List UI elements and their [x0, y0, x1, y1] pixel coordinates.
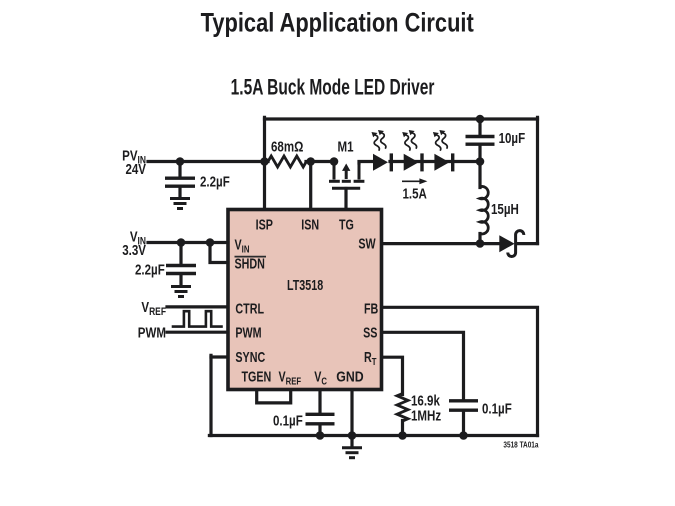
wire FB loop: [383, 307, 538, 435]
wire SS cap to bus: [462, 412, 465, 436]
svg-text:1.5A: 1.5A: [403, 185, 428, 202]
junction VIN-C3: [177, 238, 186, 247]
LED D1 emission arrows: [372, 130, 386, 151]
svg-text:ISP: ISP: [256, 216, 274, 233]
junction ISN node: [306, 157, 315, 166]
svg-text:ISN: ISN: [301, 216, 319, 233]
svg-text:10µF: 10µF: [499, 130, 526, 147]
wire TG stub: [344, 189, 347, 210]
capacitor C1 2.2uF plates: [165, 178, 195, 186]
wire SHDN link: [210, 243, 227, 263]
ground below C3: [171, 287, 191, 297]
wire top bus from ISP node to right rail: [265, 117, 538, 120]
svg-text:GND: GND: [336, 368, 364, 384]
op-amp U1 LT3518 IC body: [228, 210, 382, 390]
junction LED cathode node: [476, 157, 485, 166]
capacitor C4 0.1uF (SS) plates: [449, 401, 478, 410]
junction SW-inductor: [476, 239, 485, 248]
wire SW to schottky anode: [383, 242, 500, 245]
wire PVIN input to resistor: [148, 160, 268, 163]
PWM square wave symbol: [172, 311, 223, 326]
LED D1: [373, 153, 393, 171]
wire inductor top stub: [478, 162, 481, 188]
wire ISN stub: [309, 162, 312, 210]
wire resistor to M1 source node: [306, 160, 334, 163]
LED D3 emission arrows: [433, 130, 447, 151]
wire 10uF top stub: [478, 119, 481, 135]
wire RT resistor to bus: [401, 421, 404, 436]
svg-text:FB: FB: [364, 300, 378, 317]
junction top bus C2: [476, 115, 485, 124]
wire bottom bus: [209, 434, 537, 437]
junction ISP node: [260, 157, 269, 166]
wire C3 stub down from VIN: [179, 243, 182, 265]
wire VC stub: [318, 391, 321, 413]
svg-text:68mΩ: 68mΩ: [271, 138, 304, 155]
junction VC cap bus: [316, 431, 325, 440]
ground at GND pin: [342, 448, 362, 458]
svg-text:SHDN: SHDN: [235, 255, 265, 272]
svg-text:SYNC: SYNC: [235, 348, 265, 365]
svg-text:1MHz: 1MHz: [411, 407, 441, 424]
svg-text:VREF: VREF: [141, 298, 166, 318]
svg-text:CTRL: CTRL: [235, 300, 264, 317]
wire left rail down: [209, 355, 212, 435]
wire C1 stub down from PVIN: [178, 162, 181, 177]
junction GND bus: [348, 431, 357, 440]
svg-text:LT3518: LT3518: [287, 276, 323, 293]
diode D4 schottky bar: [508, 231, 524, 257]
wire CTRL input: [167, 305, 227, 308]
svg-text:3518 TA01a: 3518 TA01a: [503, 440, 539, 450]
svg-text:2.2µF: 2.2µF: [135, 261, 165, 278]
wire ISP stub: [263, 117, 266, 209]
svg-text:Typical Application Circuit: Typical Application Circuit: [201, 9, 474, 39]
wire PWM input: [167, 331, 227, 334]
junction SS cap bus: [459, 431, 468, 440]
wire RT to resistor: [383, 357, 403, 394]
junction VIN-SHDN: [206, 238, 215, 247]
svg-text:0.1µF: 0.1µF: [273, 412, 303, 429]
wire VIN input: [148, 241, 227, 244]
wire right rail top (output return): [536, 117, 539, 243]
wire C1 to ground: [178, 188, 181, 198]
svg-text:SW: SW: [358, 235, 376, 252]
wire M1 drain to LED anode: [359, 162, 374, 164]
svg-text:2.2µF: 2.2µF: [200, 173, 230, 190]
transistor M1 PMOS: [329, 162, 364, 189]
capacitor C5 0.1uF (VC) plates: [306, 414, 335, 424]
ground below C1: [170, 199, 190, 209]
wire SS to cap: [383, 332, 464, 399]
LED D2 emission arrows: [402, 130, 416, 151]
svg-text:SS: SS: [363, 324, 377, 341]
LED D2: [404, 153, 424, 171]
pin SHDN overline: [235, 256, 267, 258]
svg-text:0.1µF: 0.1µF: [482, 400, 512, 417]
resistor R1 68mOhm: [268, 156, 306, 167]
svg-text:3.3V: 3.3V: [122, 242, 146, 259]
current arrow 1.5A: [402, 178, 427, 184]
wire SYNC to left rail: [211, 355, 227, 358]
resistor R2 16.9k: [397, 394, 408, 422]
wire inductor bottom stub: [478, 234, 481, 244]
junction M1 source: [330, 157, 339, 166]
svg-text:TG: TG: [339, 216, 354, 233]
svg-text:15µH: 15µH: [491, 201, 519, 218]
diode D4 schottky triangle: [499, 235, 514, 252]
capacitor C2 10uF plates: [466, 137, 495, 145]
svg-text:24V: 24V: [125, 161, 146, 178]
wire C3 to ground: [179, 275, 182, 285]
svg-text:PWM: PWM: [235, 324, 261, 341]
inductor L1 15uH: [480, 186, 488, 233]
svg-text:TGEN: TGEN: [242, 368, 272, 385]
svg-text:M1: M1: [338, 138, 355, 155]
wire schottky cathode to right rail: [517, 242, 538, 245]
junction RT resistor bus: [398, 431, 407, 440]
transistor M1 body arrow head: [342, 164, 350, 171]
wire TGEN-VREF loop: [257, 391, 291, 403]
capacitor C3 2.2uF plates: [166, 266, 196, 274]
svg-text:1.5A Buck Mode LED Driver: 1.5A Buck Mode LED Driver: [231, 76, 435, 100]
wire GND stub: [350, 391, 353, 446]
wire 10uF bottom stub: [478, 146, 481, 162]
junction PVIN-C1: [176, 157, 185, 166]
svg-text:PWM: PWM: [138, 324, 166, 341]
wire VC cap to bus: [318, 425, 321, 435]
wire LED chain to cathode node: [390, 160, 480, 163]
LED D3: [434, 153, 454, 171]
